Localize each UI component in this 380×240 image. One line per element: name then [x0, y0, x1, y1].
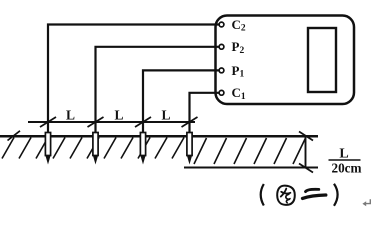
svg-text:L: L	[161, 108, 170, 123]
earth hatching left of depth dimension	[2, 138, 184, 159]
label L span 3	[161, 108, 170, 123]
megger instrument box U1	[216, 16, 355, 105]
electrode rod 3	[140, 133, 145, 165]
depth dimension line	[305, 136, 307, 168]
meter display window	[308, 28, 336, 92]
earth hatching right section	[194, 138, 305, 164]
electrode rod 4	[187, 133, 192, 165]
svg-text:C2: C2	[232, 17, 246, 34]
label P1	[232, 63, 245, 80]
dimension tick at electrode 1	[40, 117, 56, 127]
label P2	[232, 39, 245, 56]
wire C1 terminal to electrode 4	[190, 93, 220, 133]
label C2	[232, 17, 246, 34]
dimension tick at electrode 2	[88, 117, 104, 127]
terminal P2	[219, 44, 224, 49]
depth label 20cm denominator	[331, 161, 361, 176]
svg-text:P1: P1	[232, 63, 245, 80]
caption right parenthesis	[334, 184, 338, 206]
svg-text:20cm: 20cm	[331, 161, 361, 176]
caption character tu (figure)	[277, 186, 295, 205]
terminal C1	[219, 90, 224, 95]
electrode rod 2	[93, 133, 98, 165]
depth dimension tick bottom	[299, 164, 313, 173]
electrode rod 1	[45, 133, 50, 165]
label L span 1	[66, 108, 75, 123]
caption character er (two)	[303, 189, 326, 198]
wire P1 terminal to electrode 3	[143, 70, 219, 133]
terminal P1	[219, 68, 224, 73]
word-processor return mark	[362, 199, 370, 206]
wire P2 terminal to electrode 2	[96, 47, 220, 133]
label C1	[232, 85, 246, 102]
svg-text:L: L	[66, 108, 75, 123]
ground surface line	[0, 135, 318, 138]
svg-text:P2: P2	[232, 39, 245, 56]
label L span 2	[114, 108, 123, 123]
dimension tick at electrode 4	[182, 117, 198, 127]
earth layer bottom line	[184, 167, 318, 169]
depth dimension tick top	[299, 132, 313, 141]
svg-text:L: L	[114, 108, 123, 123]
depth label L numerator	[339, 147, 348, 162]
caption left parenthesis	[261, 184, 264, 206]
depth label fraction bar	[329, 159, 361, 161]
terminal C2	[219, 22, 224, 27]
spacing dimension line	[28, 121, 195, 123]
tick on ground line left	[8, 131, 21, 141]
wire C2 terminal to electrode 1	[48, 25, 219, 134]
svg-text:C1: C1	[232, 85, 246, 102]
dimension tick at electrode 3	[135, 117, 151, 127]
